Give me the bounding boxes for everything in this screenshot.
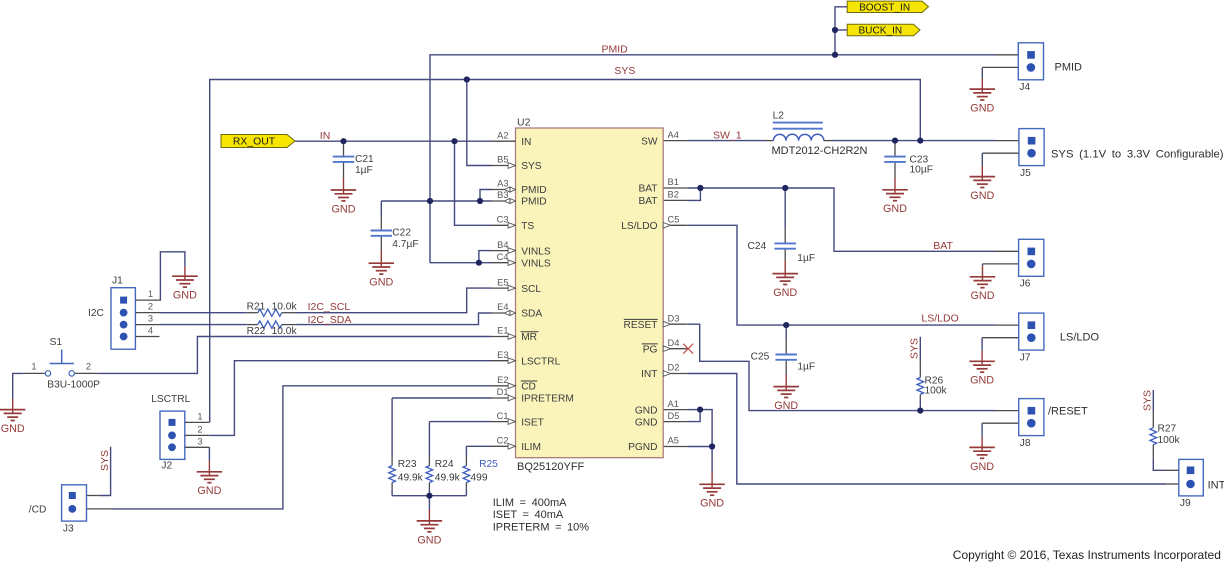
svg-text:GND: GND <box>635 417 658 428</box>
svg-text:R21 10.0k: R21 10.0k <box>247 302 298 313</box>
svg-text:C4: C4 <box>497 252 509 262</box>
svg-text:A4: A4 <box>668 130 679 140</box>
svg-text:499: 499 <box>471 472 488 483</box>
svg-text:GND: GND <box>883 203 907 215</box>
svg-text:A1: A1 <box>668 399 679 409</box>
svg-text:SYS: SYS <box>908 338 920 359</box>
svg-text:GND: GND <box>173 290 197 302</box>
svg-text:SYS: SYS <box>1141 390 1153 411</box>
svg-text:GND: GND <box>332 203 356 215</box>
svg-text:INT: INT <box>641 369 657 380</box>
svg-text:BAT: BAT <box>638 184 657 195</box>
svg-text:PMID: PMID <box>1055 62 1083 74</box>
svg-text:PMID: PMID <box>521 185 546 196</box>
svg-text:3: 3 <box>197 436 202 446</box>
svg-text:IN: IN <box>320 130 331 142</box>
svg-text:ISET: ISET <box>521 417 544 428</box>
svg-text:R25: R25 <box>479 459 498 470</box>
svg-text:D4: D4 <box>668 338 680 348</box>
svg-text:R23: R23 <box>398 459 417 470</box>
svg-text:BAT: BAT <box>933 240 953 252</box>
svg-text:U2: U2 <box>517 117 531 129</box>
svg-text:VINLS: VINLS <box>521 246 551 257</box>
svg-text:SW_1: SW_1 <box>713 130 742 142</box>
svg-text:ILIM: ILIM <box>521 442 541 453</box>
svg-text:J1: J1 <box>112 276 123 287</box>
svg-text:GND: GND <box>417 534 441 546</box>
svg-text:E4: E4 <box>497 302 508 312</box>
svg-text:GND: GND <box>700 498 724 510</box>
svg-text:E5: E5 <box>497 277 508 287</box>
svg-text:R24: R24 <box>435 459 454 470</box>
svg-text:PGND: PGND <box>628 442 657 453</box>
svg-text:1: 1 <box>31 362 36 372</box>
svg-text:LS/LDO: LS/LDO <box>1060 332 1100 344</box>
svg-text:SYS: SYS <box>614 65 635 77</box>
svg-text:J7: J7 <box>1020 352 1031 363</box>
svg-text:3: 3 <box>148 314 153 324</box>
svg-text:B2: B2 <box>668 190 679 200</box>
svg-text:SCL: SCL <box>521 284 541 295</box>
svg-text:GND: GND <box>970 375 994 387</box>
svg-text:100k: 100k <box>1158 435 1181 446</box>
svg-text:GND: GND <box>970 461 994 473</box>
svg-text:VINLS: VINLS <box>521 258 551 269</box>
svg-text:SYS (1.1V to 3.3V Configurable: SYS (1.1V to 3.3V Configurable) <box>1051 148 1224 160</box>
svg-text:49.9k: 49.9k <box>398 472 424 483</box>
svg-text:LS/LDO: LS/LDO <box>921 313 958 325</box>
svg-text:D2: D2 <box>668 363 680 373</box>
svg-text:IPRETERM = 10%: IPRETERM = 10% <box>493 521 590 533</box>
svg-text:A2: A2 <box>497 130 508 140</box>
svg-text:49.9k: 49.9k <box>435 472 461 483</box>
svg-text:GND: GND <box>635 405 658 416</box>
svg-text:GND: GND <box>971 290 995 302</box>
svg-text:GND: GND <box>197 485 221 497</box>
svg-text:A5: A5 <box>668 436 679 446</box>
svg-text:4: 4 <box>148 326 153 336</box>
svg-text:B4: B4 <box>497 240 508 250</box>
svg-text:C25: C25 <box>751 352 770 363</box>
svg-text:B1: B1 <box>668 177 679 187</box>
svg-text:C3: C3 <box>497 215 509 225</box>
svg-text:J2: J2 <box>161 460 172 471</box>
svg-text:J8: J8 <box>1020 438 1031 449</box>
svg-text:BUCK_IN: BUCK_IN <box>858 26 902 37</box>
svg-text:RX_OUT: RX_OUT <box>233 137 276 148</box>
svg-text:B5: B5 <box>497 155 508 165</box>
svg-text:LSCTRL: LSCTRL <box>521 356 560 367</box>
svg-text:SYS: SYS <box>521 161 542 172</box>
svg-text:PG: PG <box>643 344 658 355</box>
svg-text:RESET: RESET <box>624 320 658 331</box>
svg-text:GND: GND <box>369 277 393 289</box>
svg-text:C24: C24 <box>748 241 767 252</box>
svg-text:J5: J5 <box>1020 168 1031 179</box>
svg-text:2: 2 <box>148 302 153 312</box>
svg-text:I2C: I2C <box>88 308 104 319</box>
svg-text:GND: GND <box>970 190 994 202</box>
svg-text:1: 1 <box>197 412 202 422</box>
svg-text:L2: L2 <box>773 111 785 122</box>
svg-text:MDT2012-CH2R2N: MDT2012-CH2R2N <box>772 145 868 157</box>
svg-text:2: 2 <box>86 362 91 372</box>
svg-text:S1: S1 <box>50 337 63 348</box>
svg-text:I2C_SDA: I2C_SDA <box>308 314 352 326</box>
svg-text:2: 2 <box>197 425 202 435</box>
svg-text:TS: TS <box>521 221 534 232</box>
svg-text:LSCTRL: LSCTRL <box>151 394 190 405</box>
svg-text:ILIM = 400mA: ILIM = 400mA <box>493 497 567 509</box>
svg-text:R22 10.0k: R22 10.0k <box>247 326 298 337</box>
svg-text:B3: B3 <box>497 190 508 200</box>
svg-text:1µF: 1µF <box>797 362 815 373</box>
svg-text:/CD: /CD <box>29 505 47 516</box>
svg-text:1: 1 <box>148 289 153 299</box>
svg-text:PMID: PMID <box>602 44 629 56</box>
svg-text:ISET = 40mA: ISET = 40mA <box>493 509 564 521</box>
svg-text:IN: IN <box>521 137 531 148</box>
svg-text:CD: CD <box>521 382 536 393</box>
svg-text:BQ25120YFF: BQ25120YFF <box>517 461 585 473</box>
svg-text:C5: C5 <box>668 215 680 225</box>
svg-text:4.7µF: 4.7µF <box>392 239 418 250</box>
svg-text:J9: J9 <box>1180 498 1191 509</box>
svg-text:C1: C1 <box>497 411 509 421</box>
svg-text:GND: GND <box>970 103 994 115</box>
svg-text:1µF: 1µF <box>355 165 373 176</box>
svg-text:BOOST_IN: BOOST_IN <box>859 2 910 13</box>
svg-text:BAT: BAT <box>638 196 657 207</box>
svg-text:C22: C22 <box>392 227 411 238</box>
svg-text:GND: GND <box>773 287 797 299</box>
svg-text:GND: GND <box>774 400 798 412</box>
svg-text:100k: 100k <box>925 386 948 397</box>
svg-text:B3U-1000P: B3U-1000P <box>47 379 100 390</box>
svg-text:/RESET: /RESET <box>1048 406 1088 418</box>
svg-text:SDA: SDA <box>521 309 542 320</box>
svg-text:PMID: PMID <box>521 197 546 208</box>
svg-text:C21: C21 <box>355 154 374 165</box>
svg-text:D5: D5 <box>668 411 680 421</box>
svg-text:J6: J6 <box>1020 279 1031 290</box>
svg-text:J4: J4 <box>1019 82 1030 93</box>
svg-text:SYS: SYS <box>99 450 111 471</box>
svg-text:I2C_SCL: I2C_SCL <box>308 301 351 313</box>
svg-text:SW: SW <box>641 136 658 147</box>
svg-text:1µF: 1µF <box>797 253 815 264</box>
svg-text:E2: E2 <box>497 375 508 385</box>
svg-text:INT: INT <box>1208 480 1224 492</box>
svg-text:GND: GND <box>1 423 25 435</box>
svg-text:E3: E3 <box>497 350 508 360</box>
svg-text:A3: A3 <box>497 179 508 189</box>
svg-text:MR: MR <box>521 332 537 343</box>
svg-text:D1: D1 <box>497 387 509 397</box>
svg-text:10µF: 10µF <box>910 165 933 176</box>
svg-text:IPRETERM: IPRETERM <box>521 394 574 405</box>
svg-text:J3: J3 <box>63 523 74 534</box>
svg-text:Copyright © 2016, Texas Instru: Copyright © 2016, Texas Instruments Inco… <box>953 548 1221 562</box>
svg-text:R27: R27 <box>1158 423 1177 434</box>
svg-text:D3: D3 <box>668 313 680 323</box>
svg-text:E1: E1 <box>497 326 508 336</box>
svg-text:C2: C2 <box>497 436 509 446</box>
svg-text:LS/LDO: LS/LDO <box>621 221 657 232</box>
